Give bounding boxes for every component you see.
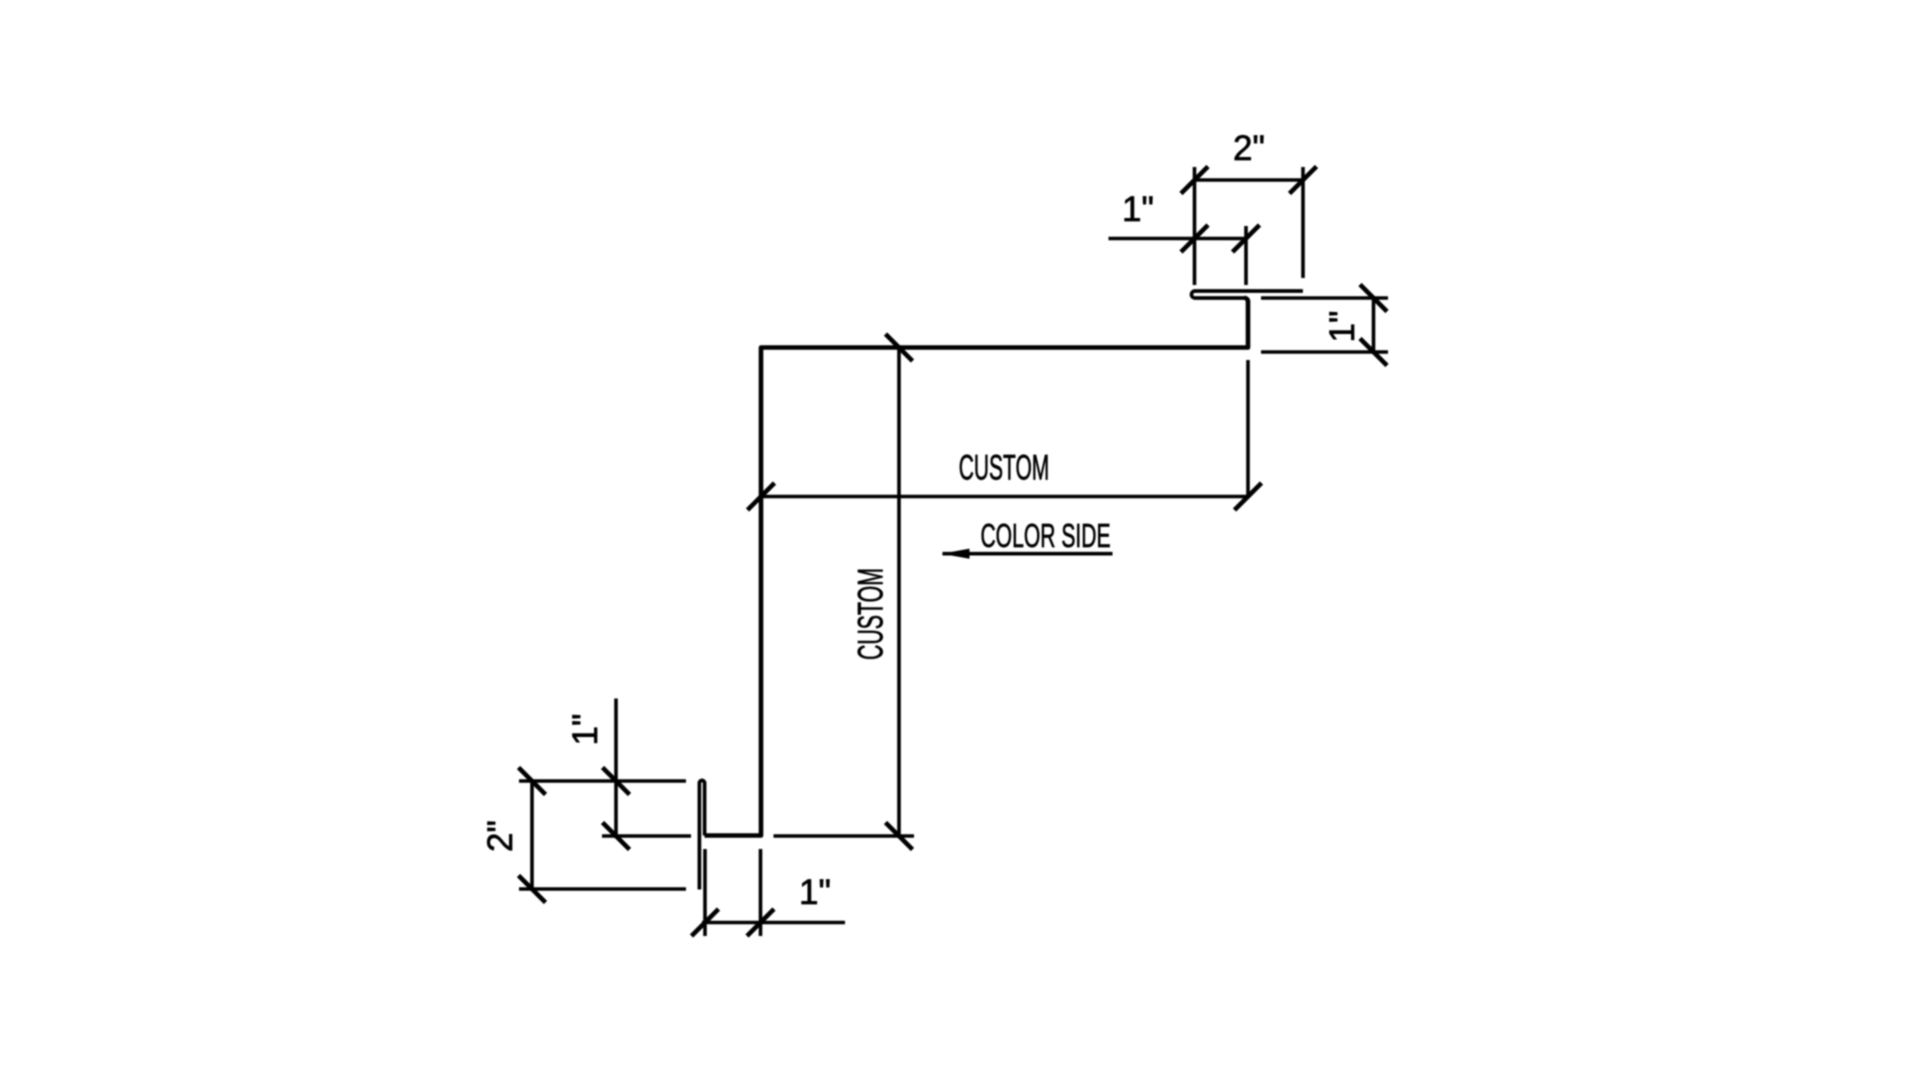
dimension 1" (bottom flange width): right extension line — [759, 849, 763, 936]
dimension 1" (bottom flange width): left tick — [692, 909, 719, 936]
dimension 2" (bottom hem tail): top tick — [519, 768, 546, 795]
dimension 1" (right, up-leg height): dimension line — [1372, 298, 1376, 352]
dimension 2" (bottom hem tail): bottom tick — [519, 876, 546, 903]
svg-text:1": 1" — [566, 714, 605, 746]
dimension 1" (bottom hem up-fold): dimension line with top leader — [614, 699, 618, 839]
dimension 1" (top hem under-fold): right tick — [1233, 225, 1260, 252]
dimension CUSTOM (top flange width): dimension line — [761, 495, 1248, 499]
dimension 1" (right, up-leg height): top tick — [1360, 285, 1387, 312]
svg-text:2": 2" — [481, 820, 520, 852]
dimension 1" (bottom flange width): left extension line — [703, 849, 707, 936]
dimension CUSTOM (top flange width): right tick — [1235, 483, 1262, 510]
dimension CUSTOM (web height): top tick — [886, 334, 913, 361]
dimension 1" (right, up-leg height): bottom extension line — [1261, 350, 1388, 354]
dimension CUSTOM (top flange width): right extension line — [1246, 360, 1250, 498]
svg-text:1": 1" — [1323, 311, 1362, 343]
dimension 1" (bottom flange width): dimension line with right leader — [702, 921, 845, 925]
dimension 1" (top hem under-fold): dimension line with left leader — [1109, 237, 1248, 241]
dimension 1" (bottom hem up-fold): bottom extension line — [602, 834, 691, 838]
dimension 2" (bottom hem tail): dimension line — [530, 781, 534, 890]
dimension CUSTOM (web height): bottom extension line — [774, 834, 915, 838]
svg-text:CUSTOM: CUSTOM — [959, 449, 1050, 488]
svg-text:1": 1" — [799, 873, 831, 912]
dimension 2" (top): right tick — [1290, 167, 1317, 194]
dimension 1" (bottom hem up-fold): bottom tick — [603, 823, 630, 850]
dimension 2" (top): right extension line — [1301, 167, 1305, 278]
svg-text:2": 2" — [1233, 129, 1265, 168]
profile top hem fold (2" return with 1" under-fold) — [1192, 291, 1303, 298]
dimension 1" (top hem under-fold): left tick — [1181, 225, 1208, 252]
profile main outline: 1" up-leg, CUSTOM top flange, CUSTOM web, 1" bottom flange — [705, 298, 1249, 836]
dimension CUSTOM (web height): bottom tick — [886, 823, 913, 850]
dimension 2" (top): left extension line — [1193, 167, 1197, 285]
dimension 1" (right, up-leg height): bottom tick — [1360, 339, 1387, 366]
svg-text:COLOR SIDE: COLOR SIDE — [980, 517, 1110, 554]
COLOR SIDE underline / arrow shaft — [943, 552, 1113, 556]
dimension 1" (bottom flange width): right tick — [747, 909, 774, 936]
COLOR SIDE arrowhead (points left) — [942, 549, 970, 559]
dimension CUSTOM (top flange width): left tick — [748, 483, 775, 510]
svg-text:1": 1" — [1122, 190, 1154, 229]
dimension 1" (top hem under-fold): right extension line — [1244, 226, 1248, 285]
dimension 1" (bottom hem up-fold): top extension line (shared with 2" dim) — [519, 779, 686, 783]
dimension 1" (bottom hem up-fold): top tick — [603, 768, 630, 795]
dimension 2" (top): left tick — [1181, 167, 1208, 194]
profile bottom hem fold (1" up-fold with 2" tail) — [699, 780, 704, 889]
dimension 1" (right, up-leg height): top extension line — [1261, 296, 1388, 300]
dimension 2" (top): dimension line — [1195, 178, 1304, 182]
dimension CUSTOM (web height): dimension line — [897, 348, 901, 837]
svg-text:CUSTOM: CUSTOM — [852, 568, 891, 660]
dimension 2" (bottom hem tail): bottom extension line — [519, 887, 686, 891]
